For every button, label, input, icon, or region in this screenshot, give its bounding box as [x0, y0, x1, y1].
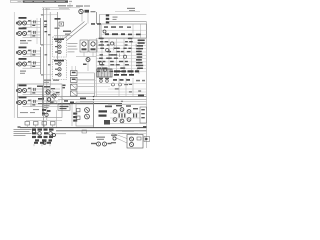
wire row: [96, 44, 146, 46]
label row f6: [99, 58, 118, 59]
label pin4: [136, 48, 143, 50]
transistor Q401: [103, 30, 106, 33]
switch S3: [71, 84, 78, 89]
wire bus: [99, 15, 101, 38]
node bus: [40, 47, 42, 74]
label model no.: [45, 5, 73, 10]
junction dash: [41, 74, 44, 75]
junction dash: [38, 98, 44, 100]
label field: [115, 84, 141, 93]
label: [138, 95, 144, 97]
transistor Q703: [127, 110, 131, 114]
wire: [42, 7, 80, 9]
wire bus: [101, 38, 103, 74]
label R119: [20, 71, 26, 74]
label: [55, 28, 60, 29]
label pin7: [137, 56, 143, 58]
wire: [75, 80, 96, 82]
transistor QF3: [106, 49, 109, 52]
label: [80, 98, 86, 100]
revision box: [11, 0, 23, 2]
wire bus: [58, 99, 147, 101]
wire stub: [98, 68, 100, 72]
wire bus: [80, 100, 147, 102]
transistor Q201: [70, 3, 89, 24]
label: [143, 126, 147, 128]
label row: [114, 70, 139, 72]
label pin2: [138, 42, 145, 44]
transistor Q305: [86, 58, 90, 72]
transistor Q804: [130, 143, 134, 147]
transistor Q106: [16, 97, 60, 107]
capacitor C302: [106, 18, 109, 20]
node bus: [40, 18, 42, 45]
wire: [110, 117, 140, 119]
junction node: [43, 96, 45, 98]
wire: [108, 88, 146, 90]
junction dash: [64, 100, 74, 103]
transistor Q501: [46, 90, 50, 104]
wire bus: [43, 8, 45, 128]
label: [91, 11, 96, 12]
label: [51, 88, 55, 89]
wire: [115, 11, 140, 13]
transistor Q105: [16, 85, 60, 95]
label: [63, 85, 66, 89]
label Q201: [76, 5, 90, 6]
junction node: [71, 103, 72, 104]
junction dash: [45, 54, 48, 55]
IC block header: [54, 38, 64, 40]
frame right: [146, 22, 148, 148]
wire: [96, 94, 146, 96]
page edge line: [13, 12, 15, 118]
wire bus: [108, 38, 110, 74]
label: [55, 18, 61, 20]
wire bus dark: [38, 103, 122, 105]
wire: [26, 120, 62, 122]
transistor Q705: [120, 119, 124, 123]
regulator box: [127, 135, 143, 149]
wire bus: [138, 38, 140, 74]
label: [105, 105, 131, 107]
wire row: [96, 64, 146, 66]
junction dash: [41, 14, 44, 15]
wire: [119, 78, 133, 96]
label: [18, 126, 21, 128]
opto PC102: [55, 45, 61, 48]
label row f9: [97, 67, 125, 68]
wire row: [96, 41, 146, 43]
wire stub: [135, 44, 137, 48]
wire bus: [57, 12, 59, 59]
pot VR104: [53, 134, 56, 137]
note text: [68, 43, 78, 52]
label: [44, 21, 47, 33]
label: [56, 92, 60, 93]
wire bus: [95, 38, 97, 97]
wire stub: [101, 42, 103, 46]
diode D802: [111, 135, 117, 144]
label C304: [91, 23, 95, 25]
junction dash: [48, 64, 51, 65]
driver board box: [76, 102, 94, 126]
arrow indicator: [144, 137, 150, 142]
wire: [77, 86, 95, 88]
label RL101: [63, 31, 71, 33]
pot VR105: [43, 141, 46, 144]
wire bus main: [18, 96, 147, 98]
connector CN103: [42, 122, 47, 128]
label row f4: [107, 51, 131, 52]
IC block header 2: [54, 60, 64, 62]
wire stub: [49, 144, 51, 146]
label row f3: [100, 48, 131, 49]
wire row: [96, 38, 146, 40]
connector CN102: [34, 122, 39, 128]
dark blob: [104, 120, 110, 125]
label pin10: [136, 65, 143, 67]
relay RL301: [80, 40, 88, 52]
label: [133, 108, 138, 109]
wire: [110, 123, 146, 125]
capacitor bank: [72, 104, 77, 126]
label pin8: [136, 59, 142, 61]
label: [20, 109, 39, 113]
opto PC104: [55, 62, 61, 65]
wire: [76, 103, 94, 105]
transistor Q803: [130, 137, 134, 141]
pot VR102: [49, 132, 53, 136]
label row f10: [97, 71, 133, 72]
label POWER AMP: [99, 110, 108, 116]
label: [44, 105, 50, 108]
wire: [99, 14, 146, 16]
wire bus: [123, 38, 125, 74]
pot VR101: [38, 132, 42, 136]
transistor Q101: [16, 17, 41, 27]
wire: [75, 83, 146, 85]
terminal box: [82, 130, 87, 133]
title bar: [23, 0, 72, 3]
emitter box: [140, 107, 147, 123]
label pin6: [136, 54, 142, 56]
wire stub: [118, 54, 120, 58]
wire bottom: [56, 130, 147, 132]
wire: [54, 35, 72, 37]
label row f5: [100, 54, 118, 55]
label pin1: [138, 40, 145, 42]
connector CN601: [77, 108, 81, 119]
opto PC101: [55, 40, 61, 43]
label R109: [20, 40, 32, 44]
wire: [110, 112, 140, 114]
system control box: [101, 24, 146, 38]
wire bus: [94, 73, 96, 97]
label Q501: [44, 86, 50, 88]
wire: [50, 94, 58, 104]
opto PC103: [55, 50, 61, 53]
transistor QF7: [99, 62, 102, 65]
relay RL302: [89, 40, 97, 52]
label R301: [97, 23, 101, 25]
component row: [113, 79, 145, 81]
wire bus: [93, 102, 95, 128]
label: [37, 86, 43, 88]
label pin3: [137, 45, 143, 47]
wire stub: [41, 44, 53, 46]
transistor Q701: [113, 110, 117, 114]
component cluster: [42, 109, 51, 117]
connector CN104: [51, 122, 56, 128]
wire row: [96, 68, 146, 70]
label: [91, 143, 112, 144]
transistor QF9: [103, 68, 106, 71]
wire stub: [75, 66, 77, 71]
note paragraph: [14, 129, 32, 136]
wire: [75, 86, 110, 88]
opto PC106: [55, 73, 61, 76]
wire stub: [71, 66, 73, 71]
wire bus: [92, 52, 94, 57]
label row: [105, 33, 141, 35]
capacitor C301: [106, 14, 109, 16]
label pin11: [137, 68, 143, 70]
wire bus: [83, 52, 85, 57]
opto PC105: [55, 68, 61, 71]
label TO POWER: [127, 8, 135, 11]
wire diagonal: [112, 136, 127, 143]
connector CN101: [25, 122, 30, 128]
wire diagonal: [64, 22, 85, 39]
node bus: [42, 86, 44, 116]
transistor Q704: [113, 118, 117, 122]
wire: [108, 103, 147, 105]
wire: [77, 92, 95, 94]
label power supply: [118, 130, 138, 133]
wire diagonal: [67, 24, 88, 41]
junction dash: [45, 24, 48, 25]
capacitor C303: [106, 21, 109, 23]
wire: [76, 56, 96, 58]
wire: [140, 24, 142, 38]
label pin9: [136, 62, 142, 64]
label row f8: [100, 64, 129, 65]
wire bus: [46, 8, 48, 120]
wire: [77, 72, 95, 74]
label: [65, 34, 70, 35]
wire row: [96, 54, 146, 56]
wire bus: [96, 12, 98, 24]
wire: [132, 24, 134, 38]
transistor Q103: [16, 47, 41, 57]
label AC inlet: [96, 137, 105, 140]
switch S1: [71, 71, 78, 76]
wire row: [96, 48, 146, 50]
diode D801: [137, 137, 141, 140]
label: [113, 17, 118, 21]
wire: [52, 90, 64, 100]
junction node: [49, 103, 51, 105]
wire bottom: [56, 133, 66, 135]
transistor QF1: [111, 42, 114, 45]
junction node: [93, 96, 94, 97]
label R312: [83, 64, 87, 66]
zener ZD302: [105, 78, 109, 82]
wire bus: [36, 18, 38, 44]
transistor Q706: [127, 118, 131, 122]
transistor Q102: [16, 28, 41, 38]
switch S2: [71, 77, 78, 82]
wire row: [96, 71, 146, 73]
label above box: [44, 80, 59, 83]
transistor Q104: [16, 58, 41, 68]
vr cluster: [32, 129, 54, 142]
zener ZD301: [99, 78, 103, 82]
wire bottom: [96, 133, 146, 135]
IC block dashed box 2: [53, 60, 67, 80]
wire: [75, 91, 146, 93]
label row: [104, 26, 131, 28]
IC block dashed box: [53, 37, 67, 57]
wire stub: [41, 144, 43, 146]
transistor Q503: [47, 98, 53, 103]
transistor Q601: [85, 108, 90, 113]
wire stub: [33, 144, 35, 146]
wire bottom dark: [20, 127, 147, 129]
wire row: [96, 51, 146, 53]
label pin5: [136, 51, 142, 53]
switch S4: [71, 91, 78, 96]
junction node: [121, 101, 122, 102]
transistor Q702: [120, 108, 124, 112]
junction node: [93, 99, 94, 100]
wire bus: [116, 38, 118, 74]
transistor Q801: [97, 142, 101, 146]
wire: [108, 21, 147, 23]
transistor QF5: [123, 55, 126, 58]
wire stub: [114, 43, 116, 47]
diode D401: [112, 83, 122, 86]
wire stub: [136, 69, 138, 73]
connector CN301: [97, 69, 112, 77]
wire bus: [131, 38, 133, 74]
wire stub: [41, 74, 53, 76]
label row f0: [99, 38, 133, 39]
relay RL101: [59, 22, 64, 26]
wire: [77, 79, 95, 81]
label row f1: [100, 41, 133, 42]
wire: [42, 8, 70, 10]
pot VR103: [32, 130, 35, 133]
wire stub: [113, 47, 115, 51]
label row f2: [99, 44, 128, 45]
wire: [56, 110, 58, 128]
transistor Q602: [85, 114, 90, 119]
wire: [101, 34, 146, 36]
junction dash: [41, 44, 44, 45]
transistor Q802: [103, 142, 107, 146]
transistor Q502: [52, 94, 56, 104]
wire stub: [41, 14, 58, 16]
vr row: [34, 142, 51, 144]
wire: [101, 29, 146, 31]
junction dash: [48, 34, 51, 35]
wire stub: [109, 49, 111, 53]
label box: [58, 104, 70, 110]
label row: [114, 74, 134, 76]
phono board box: [18, 84, 63, 118]
resistor group: [119, 114, 138, 118]
wire row: [96, 61, 146, 63]
label row f7: [98, 61, 128, 62]
wire row: [96, 58, 146, 60]
wire bus: [49, 12, 51, 104]
wire diagonal: [112, 133, 127, 139]
